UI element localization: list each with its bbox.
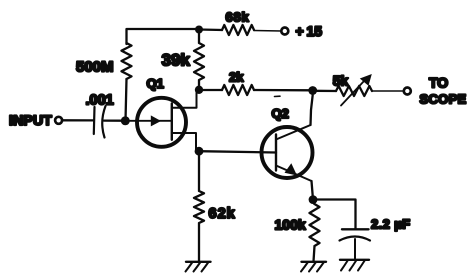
stray ink dash artifact: [275, 95, 281, 97]
label INPUT: [9, 112, 52, 128]
resistor R 39k: [194, 33, 204, 90]
value label 5k: [333, 73, 349, 89]
resistor R 62k: [194, 155, 204, 262]
svg-text:5k: 5k: [333, 73, 349, 89]
wire node C to 2k: [199, 89, 222, 91]
wire node F to capacitor branch: [313, 200, 356, 229]
transistor Q1: [125, 90, 199, 151]
wire input terminal to capacitor: [62, 119, 93, 121]
wire 2k to node E: [254, 89, 313, 92]
svg-text:.001: .001: [86, 93, 114, 109]
terminal TO SCOPE: [404, 88, 411, 95]
ground (below 100k): [301, 262, 326, 272]
designator label Q2: [272, 106, 289, 121]
svg-text:500M: 500M: [76, 59, 114, 76]
node E (2k / 5k pot / Q2 collector junction): [308, 86, 317, 95]
svg-text:INPUT: INPUT: [9, 112, 52, 128]
label +15: [296, 23, 323, 39]
resistor R 500M: [122, 43, 132, 79]
node D (Q1 source / 62k / Q2 base junction): [195, 147, 204, 156]
svg-text:2k: 2k: [229, 70, 244, 85]
value label 68k: [226, 10, 250, 25]
wire node D to Q2 base: [199, 151, 276, 152]
svg-text:2.2 µF: 2.2 µF: [371, 216, 411, 231]
wire 500M bottom to node G: [126, 79, 127, 121]
wire top rail from 500M top to node B: [127, 29, 200, 44]
svg-text:Q1: Q1: [147, 76, 164, 91]
wire 5k to scope terminal: [372, 90, 404, 92]
wire node E to 5k pot: [313, 90, 336, 92]
wire Q2 emitter to node F: [312, 181, 314, 200]
capacitor C .001: [94, 106, 106, 138]
ground (below 2.2uF capacitor): [340, 260, 369, 271]
terminal INPUT: [55, 117, 62, 124]
potentiometer wiper arrow: [341, 74, 372, 106]
svg-text:39k: 39k: [162, 50, 191, 69]
wire node B to 68k: [199, 28, 222, 31]
value label 500M: [76, 59, 114, 76]
wire 68k to +15 terminal: [254, 30, 282, 33]
svg-text:62k: 62k: [209, 206, 236, 222]
svg-text:68k: 68k: [226, 10, 250, 25]
value label 100k: [275, 216, 306, 232]
value label 62k: [209, 206, 236, 222]
svg-text:+ 15: + 15: [296, 23, 323, 39]
designator label Q1: [147, 76, 164, 91]
potentiometer R 5k: [336, 86, 372, 96]
value label .001: [86, 93, 114, 109]
svg-text:SCOPE: SCOPE: [420, 92, 467, 107]
svg-text:Q2: Q2: [272, 106, 289, 121]
label TO SCOPE: [420, 75, 467, 107]
svg-text:100k: 100k: [275, 216, 306, 232]
transistor Q2: [262, 125, 313, 181]
resistor R 68k: [222, 25, 254, 35]
node F (emitter / 100k / cap junction): [309, 195, 318, 204]
node B (top rail / 39k / 68k junction): [195, 26, 203, 34]
wire capacitor to node G: [104, 119, 123, 121]
resistor R 2k: [222, 85, 254, 95]
ground (below 62k): [186, 262, 211, 272]
node C (39k / 2k / Q1 drain junction): [195, 86, 203, 94]
capacitor C 2.2uF (polarized): [340, 229, 371, 258]
value label 2.2 uF: [371, 216, 411, 231]
terminal +15: [281, 28, 288, 35]
value label 39k: [162, 50, 191, 69]
resistor R 100k: [310, 203, 320, 262]
wire Q2 collector to node E: [311, 95, 313, 125]
value label 2k: [229, 70, 244, 85]
node G (gate / 500M / input cap junction): [121, 116, 130, 125]
svg-text:TO: TO: [429, 75, 448, 91]
